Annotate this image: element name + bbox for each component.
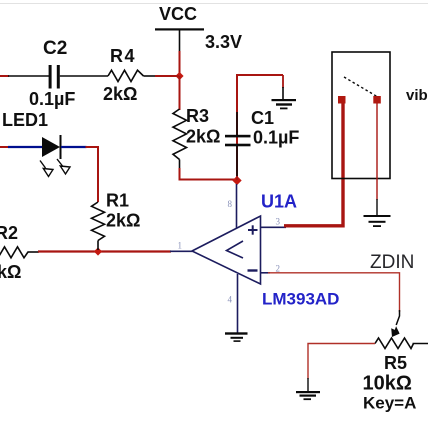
svg-text:LED1: LED1: [2, 110, 48, 130]
resistor R2 (clipped at left): [0, 247, 28, 258]
resistor R3: [173, 109, 187, 160]
VCC power symbol: [155, 4, 204, 52]
wire left stub to C2 (red): [0, 75, 9, 77]
wire ZDIN net (thin red): [268, 273, 400, 312]
svg-text:VCC: VCC: [159, 4, 197, 24]
op-amp pin 4 wire (navy): [237, 274, 239, 333]
svg-text:U1A: U1A: [261, 192, 297, 212]
svg-text:LM393AD: LM393AD: [262, 290, 339, 309]
ground G4 (R5): [296, 378, 320, 400]
wire LED left stub (red): [0, 146, 9, 148]
wire C1 upper lead (black over red): [236, 112, 238, 135]
ground G2 (op-amp): [225, 332, 248, 342]
op-amp comparator mark: [227, 241, 244, 258]
node J3 (R1/R2/out junction): [94, 247, 102, 255]
faint top border line: [0, 3, 428, 5]
wire R3 to J2 (red, corner): [180, 168, 238, 180]
resistor R1: [92, 202, 105, 241]
wire to op-amp pin 1 (navy): [170, 250, 193, 252]
wire R3 bottom lead: [179, 160, 181, 170]
svg-text:10kΩ: 10kΩ: [363, 373, 412, 395]
svg-text:3.3V: 3.3V: [205, 32, 242, 52]
wire R2 right lead: [28, 251, 40, 253]
LED emission arrow 1: [40, 161, 53, 177]
wire C1 lower lead (black): [236, 146, 238, 176]
wire switch right terminal down (thin red): [376, 103, 378, 200]
wire main output net (red): [38, 250, 171, 252]
svg-text:2: 2: [276, 264, 281, 274]
wire LED cathode (blue): [61, 146, 87, 148]
wire C1 top branch (red): [237, 75, 283, 180]
wire C2 to R4: [60, 75, 108, 77]
wire C2 left lead: [8, 75, 49, 77]
ground G3 (switch): [364, 199, 391, 227]
svg-text:Key=A: Key=A: [363, 394, 416, 413]
pin 3 wire (navy stub): [261, 226, 287, 228]
wire LED to R1 (red corner): [86, 147, 99, 202]
wire VCC to node J1: [179, 51, 181, 77]
op-amp minus sign: [248, 269, 258, 271]
wire pin3 to switch (thick red): [284, 99, 343, 226]
ground G1 (near C1): [272, 75, 297, 109]
svg-text:1: 1: [178, 241, 183, 251]
potentiometer wiper arrow: [391, 310, 399, 337]
svg-text:C1: C1: [251, 108, 274, 128]
wire R1 bottom lead: [97, 241, 99, 251]
LED emission arrow 2: [57, 159, 70, 174]
svg-text:C2: C2: [43, 38, 67, 59]
resistor R5: [375, 338, 414, 349]
switch blade (dashed): [344, 77, 377, 97]
wire R4 right lead: [144, 75, 157, 77]
svg-text:R2: R2: [0, 223, 18, 243]
node J1 (R4/VCC junction): [175, 72, 183, 80]
svg-text:2kΩ: 2kΩ: [103, 84, 137, 104]
op-amp U1A triangle: [192, 216, 261, 284]
svg-text:0.1µF: 0.1µF: [253, 128, 299, 148]
svg-text:4: 4: [228, 295, 233, 305]
svg-text:2kΩ: 2kΩ: [186, 127, 220, 147]
switch terminal right: [373, 96, 381, 104]
pin 2 wire (navy stub): [261, 272, 271, 274]
svg-text:vibration: vibration: [406, 87, 428, 104]
svg-text:R4: R4: [110, 46, 136, 66]
capacitor C2: [49, 65, 60, 89]
svg-text:R3: R3: [186, 106, 209, 126]
node J2 (R3/C1/pin8 junction): [232, 176, 241, 185]
switch box: [332, 52, 390, 179]
LED1 diode: [42, 135, 62, 159]
svg-text:2kΩ: 2kΩ: [0, 262, 21, 282]
wire R4 to J1 (red): [155, 75, 179, 77]
wire R5 left lead (thin red): [308, 344, 375, 380]
resistor R4: [108, 70, 144, 81]
svg-text:3: 3: [276, 217, 281, 227]
svg-text:ZDIN: ZDIN: [370, 252, 414, 273]
wire R5 right lead to edge: [413, 343, 428, 345]
svg-text:8: 8: [228, 199, 233, 209]
svg-text:0.1µF: 0.1µF: [29, 89, 75, 109]
svg-text:R5: R5: [384, 353, 407, 373]
op-amp plus sign: [248, 225, 258, 234]
svg-text:2kΩ: 2kΩ: [106, 211, 140, 231]
svg-text:R1: R1: [106, 191, 129, 211]
wire J2 to op-amp pin 8 (navy): [236, 184, 238, 229]
switch terminal left: [338, 96, 346, 104]
wire LED anode (blue): [8, 146, 43, 148]
wire J1 to R3 (red): [179, 76, 181, 110]
capacitor C1: [225, 135, 251, 147]
